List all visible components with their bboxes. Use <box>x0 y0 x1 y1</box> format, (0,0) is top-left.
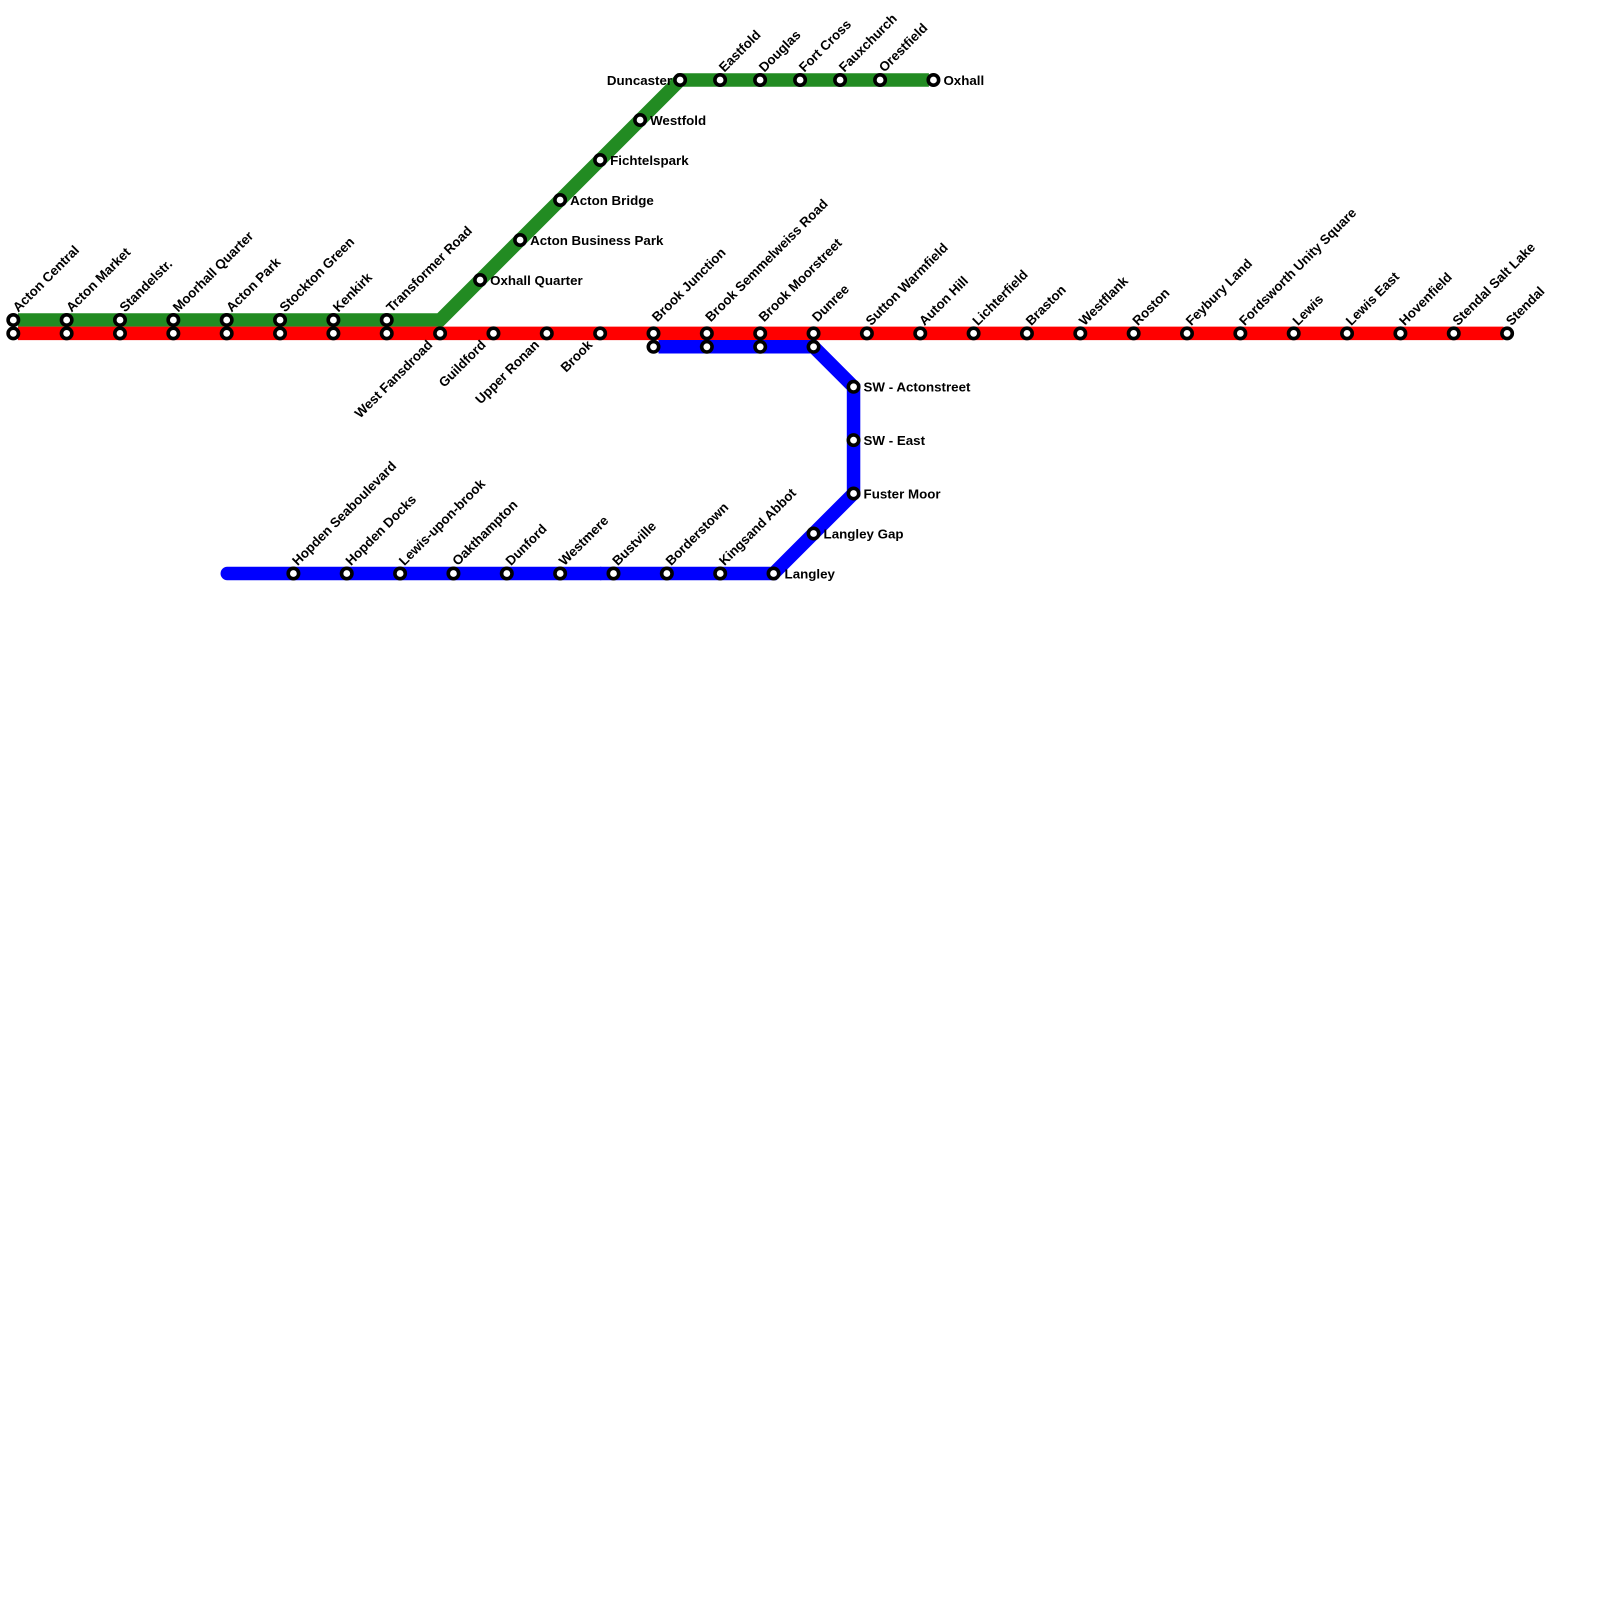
station Stendal <box>1502 284 1548 339</box>
station Fichtelspark <box>595 153 689 168</box>
station Dunford <box>502 521 550 579</box>
svg-text:Acton Business Park: Acton Business Park <box>530 233 664 248</box>
station Westflank <box>1075 273 1131 339</box>
station Fort Cross <box>795 17 854 86</box>
station Brook Semmelweiss Road <box>702 196 831 352</box>
station Hopden Docks <box>342 492 420 579</box>
station Brook Moorstreet <box>755 235 845 352</box>
station Lewis East <box>1342 269 1403 339</box>
station Standelstr. <box>115 256 175 338</box>
station Acton Bridge <box>555 193 654 208</box>
station Guildford <box>436 328 499 390</box>
station Stendal Salt Lake <box>1449 240 1539 339</box>
station Auton Hill <box>915 273 971 338</box>
svg-text:Oxhall: Oxhall <box>943 73 984 88</box>
station Orestfield <box>875 20 931 85</box>
svg-text:SW - East: SW - East <box>864 433 926 448</box>
station Duncaster <box>607 73 685 88</box>
red line <box>18 327 1504 341</box>
svg-text:Oxhall Quarter: Oxhall Quarter <box>490 273 583 288</box>
station Kingsand Abbot <box>715 485 799 579</box>
station Oxhall Quarter <box>475 273 583 288</box>
station Acton Business Park <box>515 233 664 248</box>
station Roston <box>1128 285 1172 338</box>
station Lichterfield <box>968 267 1030 339</box>
station Westmere <box>555 513 611 579</box>
station SW - Actonstreet <box>848 380 971 395</box>
station Eastfold <box>715 27 764 85</box>
blue line west tail (round end) <box>227 567 600 581</box>
svg-text:Acton Bridge: Acton Bridge <box>570 193 654 208</box>
station Westfold <box>635 113 706 128</box>
svg-text:Westfold: Westfold <box>650 113 706 128</box>
station Fordsworth Unity Square <box>1235 205 1359 338</box>
station Kenkirk <box>328 269 375 338</box>
station West Fansdroad <box>352 328 446 421</box>
station Acton Park <box>222 254 284 338</box>
station Oxhall <box>928 73 984 88</box>
station Feybury Land <box>1182 256 1255 339</box>
station Dunree <box>808 281 852 352</box>
svg-text:Fuster Moor: Fuster Moor <box>864 486 941 501</box>
svg-text:Fichtelspark: Fichtelspark <box>610 153 689 168</box>
station Brook <box>558 328 606 375</box>
station Stockton Green <box>275 234 357 338</box>
svg-text:Duncaster: Duncaster <box>607 73 672 88</box>
station Langley <box>768 566 835 581</box>
station Sutton Warmfield <box>862 240 951 339</box>
svg-text:Langley Gap: Langley Gap <box>824 526 904 541</box>
station Lewis <box>1289 292 1327 339</box>
station Braston <box>1022 282 1069 339</box>
station Upper Ronan <box>472 328 552 407</box>
station Fauxchurch <box>835 11 900 85</box>
station Langley Gap <box>808 526 903 541</box>
svg-text:Langley: Langley <box>785 566 836 581</box>
green line <box>18 80 929 320</box>
station Hopden Seaboulevard <box>288 458 399 578</box>
station Borderstown <box>662 500 732 579</box>
station Brook Junction <box>648 245 728 352</box>
station Douglas <box>755 27 804 85</box>
station Transformer Road <box>382 223 475 338</box>
station Moorhall Quarter <box>168 228 256 338</box>
station Oakthampton <box>448 497 520 579</box>
station Acton Central <box>8 243 82 339</box>
station Bustville <box>608 519 659 579</box>
station Hovenfield <box>1395 270 1455 339</box>
station Lewis-upon-brook <box>395 476 489 579</box>
station SW - East <box>848 433 925 448</box>
svg-text:SW - Actonstreet: SW - Actonstreet <box>864 380 971 395</box>
station Acton Market <box>61 244 133 338</box>
blue line main <box>600 347 854 574</box>
station Fuster Moor <box>848 486 940 501</box>
